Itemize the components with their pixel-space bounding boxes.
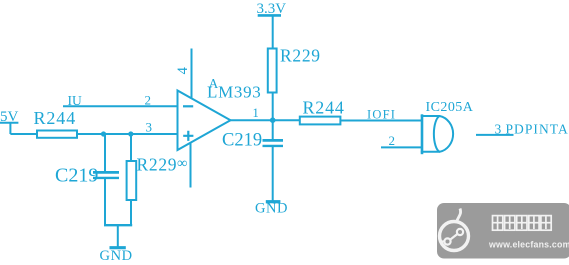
gate IC205A input bar [421,114,424,154]
watermark logo pad B [457,229,463,235]
capacitor C219 (left) bottom wire [104,179,106,225]
op-amp section label A [209,76,219,91]
wire op-amp output [231,119,300,121]
node 5V underline [0,122,18,124]
svg-text:IC205A: IC205A [426,100,474,115]
wire R229 to output node [272,93,274,121]
power 3.3V bar [258,14,281,17]
capacitor C219 (left) top plate [93,171,119,174]
svg-text:C219: C219 [55,165,98,187]
gate IC205A label [426,100,474,115]
ground (left) bar [110,246,126,249]
watermark CJK text 电子发烧友 [493,216,552,231]
wire 5V to R244 [10,133,37,135]
watermark box [437,203,569,259]
svg-text:2: 2 [389,133,396,148]
capacitor C219 (right) top wire [272,120,274,139]
watermark logo trace 1 [450,234,457,240]
svg-text:PDPINTA: PDPINTA [506,122,569,137]
wire R244 to gate input [340,120,421,122]
ground (left) label [100,248,133,264]
watermark logo pad A [444,238,450,244]
junction dot at output node [270,117,276,123]
svg-text:4: 4 [175,66,191,74]
ground (middle) label [255,200,288,216]
net IU label [68,93,82,108]
ground (middle) bar [266,200,281,203]
pin 1 label [253,106,259,120]
resistor R244 (right) body [300,117,341,125]
svg-text:3: 3 [146,119,153,134]
capacitor C219 (right) bottom plate [263,145,284,147]
svg-text:R244: R244 [303,98,345,118]
watermark logo circle [440,222,469,251]
wire stub to ground [117,225,119,247]
op-amp plus input symbol [183,131,193,141]
capacitor C219 (right) label [222,130,262,150]
op-amp power pin 8 wire [190,143,192,188]
wire R244 to op-amp pin3 [77,133,178,135]
svg-text:IU: IU [68,93,82,108]
power 3.3V label [257,1,287,17]
resistor R229 (left) body [127,161,137,200]
capacitor C219 (left) top wire [104,134,106,171]
resistor R244 (right) label [303,98,345,118]
svg-text:3: 3 [495,122,502,137]
output pin 3 label [495,122,502,137]
pin 2 label [145,92,152,107]
pin 8 label (rotated) [177,156,187,172]
watermark logo tail [457,209,461,222]
gate IC205A top edge [421,115,440,117]
svg-text:2: 2 [145,92,152,107]
resistor R244 (left) [37,131,77,138]
svg-text:∞: ∞ [177,156,187,172]
capacitor C219 (right) top plate [263,139,284,142]
resistor R244 (left) value label [34,108,77,128]
svg-text:LM393: LM393 [207,83,262,102]
svg-text:R229: R229 [137,155,178,175]
output wire PDPINTA [476,134,514,136]
op-amp power pin 4 wire [191,49,193,99]
net PDPINTA label [506,122,569,137]
net IU wire to op-amp pin2 [63,105,178,107]
resistor R229 (left) bottom wire [130,200,132,225]
capacitor C219 (right) bottom wire [272,147,274,201]
op-amp U1 LM393 triangle [178,91,231,151]
pin 3 label [146,119,153,134]
op-amp part label LM393 [207,83,262,102]
svg-text:GND: GND [100,248,133,264]
svg-text:R229: R229 [280,46,321,66]
node 5V label [0,109,19,125]
svg-text:GND: GND [255,200,288,216]
svg-text:IOFI: IOFI [367,107,396,121]
gate IC205A bottom edge [421,151,440,153]
wire 5V vertical drop [9,123,11,134]
svg-text:1: 1 [253,106,259,120]
gate input 2 wire [381,146,421,148]
svg-text:C219: C219 [222,130,262,150]
wire joining C219 and R229 bottoms [104,224,132,226]
resistor R229 (left) top wire [130,134,132,161]
capacitor C219 (left) label [55,165,98,187]
resistor R229 (top) body [268,49,277,93]
net IOFI label [367,107,396,121]
op-amp minus input symbol [183,105,193,107]
wire 3.3V to R229 [272,15,274,48]
junction dot (C219 tap) [101,131,106,136]
resistor R229 (top) label [280,46,321,66]
gate input pin 2 label [389,133,396,148]
svg-text:R244: R244 [34,108,77,128]
capacitor C219 (left) bottom plate [93,177,119,179]
resistor R229 (left) label [137,155,178,175]
watermark logo trace 2 [440,240,445,242]
gate IC205A crescent body [434,116,453,152]
junction dot (R229 tap) [128,131,133,136]
pin 4 label (rotated) [175,66,191,74]
svg-text:www.elecfans.com: www.elecfans.com [488,240,569,250]
